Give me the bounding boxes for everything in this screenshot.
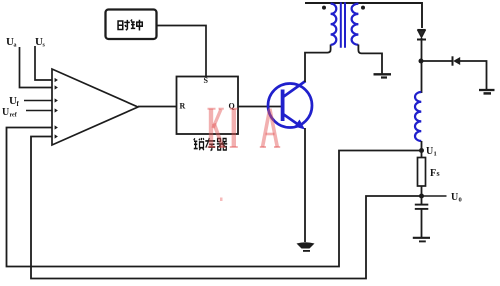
phase dot secondary — [361, 6, 365, 10]
svg-text:R: R — [180, 102, 186, 111]
wire top rail — [305, 3, 422, 28]
clock box 时钟 — [106, 10, 157, 40]
wire Us to comparator input 1 — [35, 46, 52, 80]
latch box — [177, 77, 239, 135]
svg-text:1: 1 — [434, 151, 437, 158]
primary winding — [331, 4, 337, 45]
diode D2 — [453, 56, 461, 65]
capacitor C1 — [415, 205, 429, 209]
wire D2 to right ground — [460, 61, 487, 90]
node U0 — [419, 194, 424, 199]
node U1 — [419, 148, 424, 153]
svg-text:0: 0 — [459, 197, 462, 204]
glyph 器 — [217, 139, 227, 150]
inductor L1 — [415, 92, 421, 141]
secondary winding — [352, 4, 359, 45]
resistor Fs — [418, 158, 426, 187]
ground right — [479, 90, 495, 93]
glyph 时 — [118, 20, 130, 30]
label Uf — [9, 95, 20, 108]
wire clock to latch S — [157, 26, 207, 77]
feedback wire B (U0 to comparator input 6) — [31, 137, 422, 279]
wire Uref to comparator input 4 — [26, 110, 52, 112]
svg-text:U: U — [451, 192, 458, 203]
wire latch Q to transistor base — [238, 106, 282, 108]
glyph 钟 — [131, 19, 142, 30]
label U1 — [426, 146, 437, 158]
wire node to D2 — [421, 60, 452, 62]
wire to label U0 — [422, 195, 447, 197]
transistor Q1 — [268, 81, 312, 130]
wire emitter down — [304, 128, 306, 242]
wire capacitor to ground — [421, 209, 423, 237]
label Uref — [2, 107, 18, 119]
label Fs — [430, 168, 440, 179]
label Ua — [6, 36, 17, 49]
glyph 锁 — [194, 138, 204, 150]
glyph 存 — [205, 138, 215, 151]
ground transformer secondary — [374, 74, 392, 77]
op-amp comparator U1 — [52, 69, 138, 145]
label U0 — [451, 192, 462, 204]
wire Uf to comparator input 3 — [24, 100, 52, 102]
svg-text:F: F — [430, 168, 436, 179]
feedback wire A (U1 to comparator input 5) — [7, 128, 422, 267]
svg-text:ref: ref — [10, 113, 18, 119]
node junction above inductor — [419, 59, 424, 64]
label Us — [35, 36, 46, 49]
svg-text:a: a — [14, 43, 17, 49]
transformer T1 — [331, 2, 359, 48]
svg-text:s: s — [437, 169, 440, 178]
svg-text:U: U — [2, 107, 9, 118]
ground output — [413, 238, 430, 242]
wire resistor to node U0 — [421, 186, 423, 196]
wire Ua to comparator input 2 — [20, 47, 53, 88]
watermark fragment dot — [220, 198, 223, 202]
wire collector up to transformer primary — [305, 45, 331, 83]
wire node U1 to resistor — [421, 141, 423, 158]
phase dot primary — [322, 6, 326, 10]
wire comparator output to latch R — [138, 106, 177, 108]
diode D1 — [417, 30, 426, 40]
core — [341, 2, 345, 48]
watermark KIA — [208, 109, 281, 147]
wire secondary bottom to ground — [358, 45, 382, 74]
comparator input marks — [55, 78, 58, 139]
wire U0 node to capacitor — [421, 196, 423, 205]
ground at emitter — [297, 242, 315, 252]
svg-text:U: U — [426, 146, 433, 157]
svg-text:S: S — [204, 76, 209, 85]
wire D1 to node — [421, 38, 423, 93]
